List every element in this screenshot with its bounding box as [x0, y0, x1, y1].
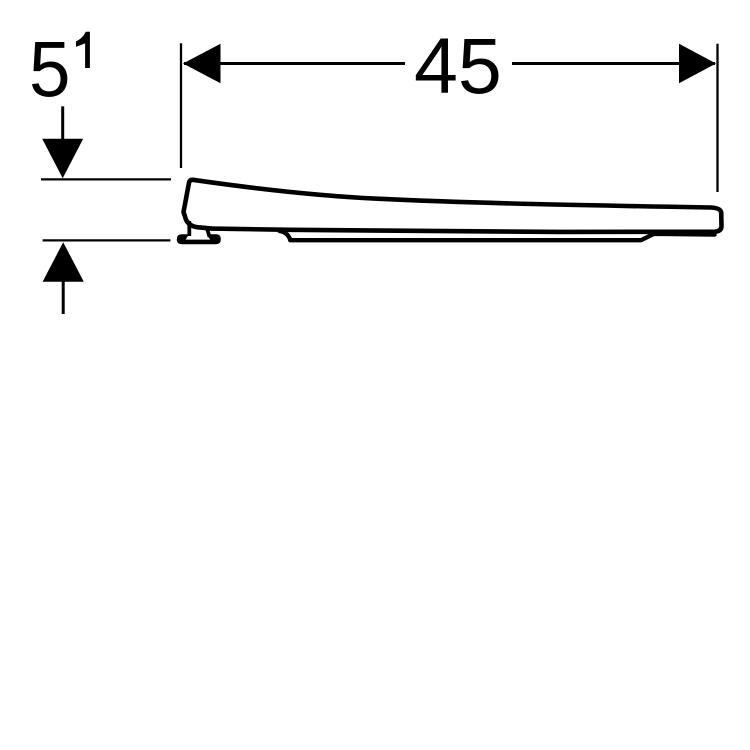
arrowhead right of 45 dimension	[679, 44, 716, 84]
left extension line of 45 dimension	[180, 43, 182, 168]
seat profile outline	[184, 180, 722, 232]
foot stem right line	[207, 230, 209, 238]
arrowhead left of 45 dimension	[183, 44, 221, 84]
foot stem left line	[187, 221, 191, 236]
upper reference line of 5 dimension	[41, 178, 171, 180]
svg-text:45: 45	[414, 21, 502, 110]
vertical dimension line 5 (upper segment)	[61, 106, 64, 140]
right extension line of 45 dimension	[716, 44, 718, 192]
arrowhead down of 5 dimension	[42, 139, 83, 178]
underside recess lip line	[280, 231, 715, 240]
svg-text:5: 5	[29, 24, 71, 113]
horizontal dimension line 45 (left segment)	[184, 62, 405, 65]
arrowhead up of 5 dimension	[43, 242, 84, 282]
foot base pad inner white recess	[186, 233, 211, 240]
foot base pad	[177, 234, 221, 244]
horizontal dimension line 45 (right segment)	[512, 62, 715, 65]
vertical dimension line 5 (lower segment)	[62, 281, 65, 314]
lower reference line of 5 dimension	[43, 239, 171, 241]
